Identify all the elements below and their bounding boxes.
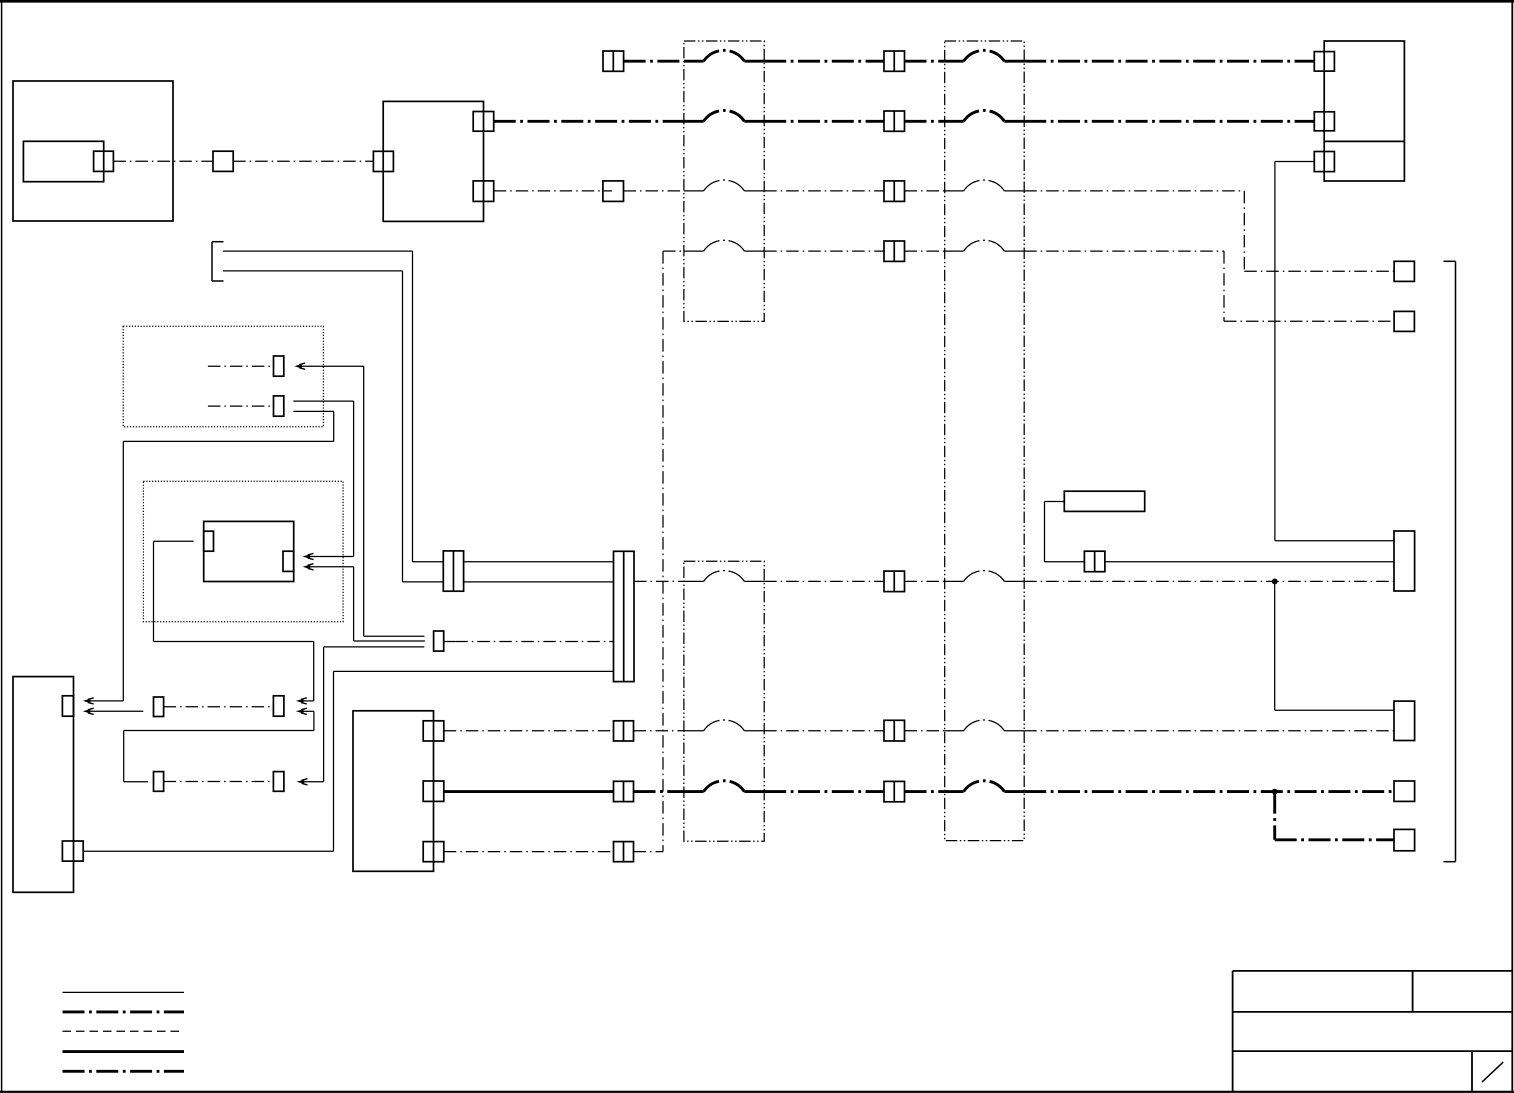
connector A1 (row A left) (603, 51, 624, 71)
wire into conn-B (298, 700, 314, 702)
harness boundary box 3 (lower left column) (684, 561, 764, 841)
arrow into left-box conn1 (83, 698, 94, 704)
connector I1 pair (614, 842, 634, 862)
junction row F (1272, 579, 1278, 585)
title block (1233, 971, 1513, 1092)
wire stub meter pin1 (208, 365, 274, 367)
connector A2 (row A mid) (884, 51, 905, 71)
connector B-top-right (473, 112, 494, 132)
wire meter feed bottom run (364, 635, 425, 637)
wire row F with grommet humps (634, 571, 1394, 582)
arrow into conn-D (297, 779, 308, 785)
wire conn-B2 out (298, 710, 314, 712)
sub-unit inside block A (23, 141, 103, 181)
arrow into left-box conn1 second (83, 708, 94, 714)
wire R1 branch into R2 (1275, 709, 1394, 711)
page border bottom (0, 1091, 1514, 1093)
wire relay feed drop (153, 541, 155, 641)
connector G1 pair (614, 721, 634, 741)
connector C-mid (row C) (213, 151, 233, 171)
wire row I seg1 (444, 851, 614, 853)
connector D-1 (upper) (62, 696, 73, 716)
wire conn A-B link (164, 706, 274, 708)
connector C3 (1314, 152, 1334, 172)
wire unit drop (1044, 502, 1046, 562)
harness boundary box 1 (upper left column) (684, 41, 764, 321)
component block B (383, 101, 483, 221)
relay component box (204, 521, 294, 581)
connector R-D (right edge) (1394, 261, 1414, 281)
wire into left-box conn1 (85, 700, 123, 702)
wire conn C-D link (164, 781, 274, 783)
connector A-small (x153) (154, 697, 164, 717)
wire into relay upper (305, 556, 354, 558)
harness bracket right (1444, 261, 1456, 861)
wire row A with grommet humps (624, 50, 1315, 61)
arrow into conn-B2 (296, 708, 307, 714)
connector E-1 (423, 721, 444, 741)
legend line 5 (thick dash-dot) (63, 1070, 185, 1073)
wire vertical trunk x663 (662, 251, 664, 852)
wire stub meter pin2 (208, 405, 274, 407)
wire meter pin2 out lower (293, 410, 333, 412)
connector E2 (row E mid) (884, 241, 905, 261)
legend line 1 (thin solid) (63, 991, 185, 993)
component block A (top-left outer box) (13, 81, 173, 221)
wire relay out lower (305, 566, 354, 568)
wire conn2 riser (333, 671, 335, 851)
wire left-box conn2 out (83, 850, 333, 852)
connector F2 (row F mid) (884, 571, 905, 592)
wire third feed riser (323, 647, 325, 782)
component small unit (resistor block) (1064, 491, 1144, 511)
wire row G with grommet humps (634, 720, 1395, 731)
wire row D jog down (1243, 191, 1245, 271)
connector B-left (373, 151, 393, 171)
wire loop drop x313 (313, 711, 315, 730)
wire row H seg1 (thick solid) (444, 790, 614, 793)
wire row D seg1 (494, 190, 612, 192)
arrow into conn-B (296, 698, 307, 704)
wire row B with grommet humps (494, 110, 1315, 121)
wire loop drop x123 (123, 731, 125, 782)
wire loop into conn-C (124, 781, 148, 783)
connector D-small (x273 lower) (273, 772, 284, 792)
wire to main connector lower (464, 581, 614, 583)
wire meter feed riser (363, 366, 365, 636)
connector R4 (right) (1394, 829, 1415, 850)
dotted boundary: meter assembly (123, 326, 323, 427)
connector R2 (right) (1394, 701, 1415, 740)
wire cross run y441 (123, 440, 333, 442)
relay connector right (283, 551, 294, 571)
wire bracket lower riser (402, 271, 404, 582)
wire row D with grommet humps (624, 180, 1245, 191)
dotted boundary: relay unit (143, 481, 343, 622)
wire pin2 lower riser (333, 411, 335, 441)
wire C3 riser down (1274, 162, 1276, 541)
legend line 4 (thick solid) (63, 1050, 185, 1053)
wire row E jog down (1223, 251, 1225, 321)
connector H1 pair (614, 781, 634, 801)
connector G2 pair (884, 720, 905, 741)
connector E-2 (423, 781, 444, 801)
relay connector left (204, 531, 214, 551)
wire row I seg2 (634, 851, 664, 853)
wire bracket upper bottom run (413, 561, 444, 563)
wire bracket lower bottom run (403, 581, 444, 583)
wire row H with grommet humps (634, 781, 1395, 792)
wire relay left feed (154, 540, 194, 542)
connector pair mid-left (443, 551, 463, 591)
wire row C seg2 (233, 160, 373, 162)
page border left (1, 0, 3, 1093)
wire C3 into connector R1 (1275, 540, 1394, 542)
connector unit pair (1084, 551, 1105, 572)
harness boundary box 2 (right column) (945, 41, 1024, 841)
connector B-small (x273) (273, 696, 284, 716)
connector meter pin2 (274, 396, 284, 416)
wire row H branch run (1275, 838, 1394, 841)
connector D-2 (lower) (62, 841, 83, 861)
wire meter pin1 feed (297, 365, 364, 367)
page border right (1511, 0, 1513, 1093)
junction row H (1272, 789, 1278, 795)
harness bracket left (212, 242, 224, 281)
connector C1 (1314, 52, 1334, 72)
arrow into meter pin1 (294, 363, 305, 369)
wire row D seg6 (1244, 270, 1394, 272)
wire unit out left (1045, 501, 1065, 503)
legend line 2 (thick dash-dot) (63, 1010, 185, 1013)
page border top (0, 0, 1514, 3)
wire row H branch drop (1273, 792, 1276, 840)
wire row C seg1 (113, 160, 213, 162)
wire R1 branch drop (1274, 581, 1276, 710)
title block slash (1482, 1062, 1503, 1082)
legend line 3 (dashed) (63, 1030, 185, 1032)
connector mid-small (434, 631, 444, 651)
wire mid-small out (444, 641, 614, 643)
wire unit run right (1045, 561, 1085, 563)
wire bracket lower (223, 270, 403, 272)
connector R3 (right) (1394, 781, 1415, 801)
connector R1 (right, tall) (1394, 531, 1415, 591)
wire from bracket upper (223, 250, 413, 252)
wire left drop x123 (122, 441, 124, 701)
component block E (lower box) (353, 711, 434, 872)
wire pin2 upper riser (353, 401, 355, 556)
wire loop run y730 (124, 730, 314, 732)
connector D1 (row D) (603, 181, 624, 202)
wire relay lower riser (353, 567, 355, 641)
connector on sub-unit right edge (94, 151, 114, 171)
connector D2 (row D mid) (884, 181, 905, 202)
wire into left-box conn1 second (85, 710, 143, 712)
wire bracket upper riser (412, 251, 414, 562)
main tall connector pair (614, 551, 635, 681)
wire to main connector upper (464, 561, 614, 563)
wire row G seg1 (444, 730, 614, 732)
connector C2 (1314, 112, 1334, 131)
wire C3 stub (1275, 161, 1314, 163)
wire relay lower bottom run (354, 640, 425, 642)
connector C-small (x153 lower) (154, 772, 164, 792)
wire conn2 top run (334, 670, 614, 672)
wire third feed run (324, 646, 425, 648)
component block C (top-right box) (1324, 41, 1404, 181)
arrow into relay lower (303, 564, 314, 570)
connector R-E (right edge) (1394, 311, 1414, 331)
component block D (left tall box) (13, 677, 74, 893)
connector E-3 (423, 842, 444, 862)
connector H2 pair (884, 781, 905, 801)
wire meter pin2 out upper (293, 400, 353, 402)
wire row E seg5 (1224, 320, 1394, 322)
wire row E with grommet humps (663, 240, 1224, 251)
wire into conn-D (299, 781, 324, 783)
wire relay feed drop2 (313, 642, 315, 701)
wire relay feed run y641 (154, 641, 314, 643)
wire unit run to R1 (1105, 561, 1394, 563)
connector B-bottom-right (473, 181, 494, 202)
connector B2 (row B mid) (884, 111, 905, 131)
arrow into relay conn (303, 553, 314, 559)
connector meter pin1 (274, 356, 284, 376)
